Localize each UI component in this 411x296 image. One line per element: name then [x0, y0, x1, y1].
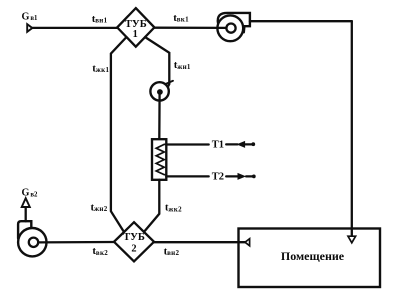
label tвк1 [173, 12, 189, 24]
wire: fan F2 to ТУБ2 [38, 241, 114, 244]
svg-text:жн2: жн2 [94, 205, 108, 213]
label Gв2 [22, 188, 39, 199]
svg-text:жк1: жк1 [96, 66, 110, 74]
pump (circle with dot) [150, 82, 168, 100]
wire T1 right segment with arrow [226, 141, 255, 148]
fan F1 (supply fan, top) [217, 13, 249, 41]
wire: liquid loop left leg ТУБ2 to ТУБ1 [111, 37, 127, 232]
svg-text:вк1: вк1 [177, 16, 189, 24]
svg-text:в1: в1 [30, 15, 38, 22]
svg-text:2: 2 [131, 244, 136, 255]
svg-text:вн2: вн2 [167, 249, 179, 257]
wire T2 return [166, 175, 208, 177]
fan F2 (exhaust fan, bottom-left) [18, 221, 46, 256]
svg-text:жн1: жн1 [177, 63, 191, 71]
svg-text:жк2: жк2 [168, 205, 182, 213]
label Gв1 [22, 11, 39, 22]
svg-text:G: G [22, 11, 30, 22]
svg-text:Т2: Т2 [212, 171, 224, 182]
svg-text:Т1: Т1 [212, 139, 224, 150]
svg-text:в2: в2 [30, 191, 38, 198]
label tжн1 [174, 59, 191, 71]
label tвн2 [164, 245, 180, 257]
intake arrow Gв1 [27, 24, 32, 32]
wire: supply drop into room [351, 21, 353, 236]
arrow: supply air into room [348, 236, 356, 243]
wire: heat exchanger to ТУБ2 [144, 180, 159, 232]
label tжк2 [165, 202, 182, 214]
label tжк1 [92, 62, 109, 74]
label tвн1 [92, 13, 108, 25]
wire: ТУБ1 to fan F1 [154, 27, 226, 29]
heat-recovery unit ТУБ 1 (diamond) [117, 8, 154, 47]
wire: room exhaust to ТУБ2 [154, 241, 245, 243]
label tвк2 [92, 245, 108, 257]
flow tick on pump inlet [165, 81, 173, 85]
coil zigzag inside heat exchanger [156, 144, 166, 174]
wire: outside air inlet to ТУБ1 [33, 27, 118, 29]
svg-text:вк2: вк2 [96, 249, 108, 257]
svg-text:вн1: вн1 [95, 17, 107, 25]
svg-text:ТУБ: ТУБ [123, 232, 145, 243]
room box Помещение [239, 229, 381, 288]
exhaust arrow Gв2 [22, 198, 30, 207]
wire: pump to heat exchanger [158, 93, 161, 139]
svg-text:G: G [22, 188, 30, 199]
svg-text:Помещение: Помещение [281, 249, 345, 263]
wire: F1 outlet to supply drop [250, 20, 352, 22]
svg-text:1: 1 [133, 29, 138, 40]
wire T1 supply [166, 143, 208, 145]
arrow: exhaust air leaving room [245, 239, 250, 246]
wire: ТУБ1 to pump [145, 37, 169, 87]
wire T2 right segment with arrow [226, 173, 256, 180]
heat-recovery unit ТУБ 2 (diamond) [114, 222, 154, 261]
wire: riser to Gв2 outlet [25, 207, 27, 221]
heat exchanger body [152, 139, 166, 180]
label tжн2 [91, 201, 108, 213]
